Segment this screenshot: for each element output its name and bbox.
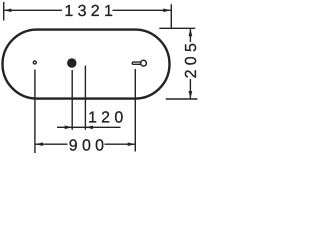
extension line from keyhole down [134, 69, 136, 152]
dim 1321: left extension tick [3, 2, 5, 21]
small mounting hole (donut) [33, 61, 36, 64]
dim 205: bottom arrowhead [189, 91, 193, 99]
dim 120: right tail with arrow (points left at extension line) [86, 126, 121, 128]
dim 900: left arrowhead [35, 142, 43, 146]
dim 1321: dimension line right segment [113, 9, 171, 11]
extension line from small hole down [34, 70, 36, 154]
dim 900: dimension line left segment [36, 143, 68, 145]
dim 1321: left arrowhead [4, 9, 11, 13]
dim 120: left arrowhead (points right at extension line) [65, 126, 73, 130]
svg-text:900: 900 [69, 138, 109, 155]
dim 205: bottom extension line [166, 98, 198, 100]
svg-text:205: 205 [183, 39, 200, 79]
dim 120: middle segment [72, 126, 85, 128]
dim 1321: right arrowhead [163, 9, 171, 13]
dim 205: dimension line bottom segment [189, 79, 191, 99]
dim 205: top arrowhead [189, 29, 193, 37]
dim 1321: right extension tick [170, 4, 172, 28]
dim 900: dimension line right segment [105, 143, 136, 145]
dim 1321: dimension line left segment [4, 9, 62, 11]
dim 120: dimension line left tail with arrow [57, 126, 72, 128]
dim 205: dimension line top segment [189, 29, 191, 42]
keyhole slot [132, 62, 143, 64]
dim 900: right arrowhead [128, 142, 136, 146]
svg-text:1321: 1321 [64, 3, 117, 20]
cable entry (filled circle) [67, 58, 76, 67]
extension line from filled circle down [71, 70, 73, 130]
svg-text:120: 120 [88, 110, 128, 127]
dim 205: top extension line [159, 27, 195, 29]
extension line from centreline down [84, 66, 86, 130]
keyhole circle [141, 60, 147, 66]
fixture outline (stadium shape) [3, 30, 170, 99]
